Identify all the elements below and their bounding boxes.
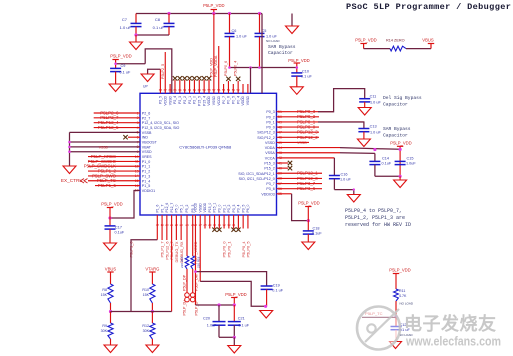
resistor R8 15K xyxy=(108,284,113,303)
svg-text:C13: C13 xyxy=(370,125,377,129)
svg-text:SAR Bypass: SAR Bypass xyxy=(383,126,411,132)
capacitor C11 xyxy=(359,98,370,100)
svg-text:P5LP_VDD: P5LP_VDD xyxy=(355,38,376,43)
svg-text:1.0uF: 1.0uF xyxy=(406,162,416,166)
svg-text:CY8C5868LTI-LP039 QFN68: CY8C5868LTI-LP039 QFN68 xyxy=(179,145,232,150)
svg-text:VSSA: VSSA xyxy=(265,151,275,155)
svg-text:P12_7: P12_7 xyxy=(170,203,174,213)
svg-text:Capacitor: Capacitor xyxy=(268,50,293,56)
wire pin44 VDDA rail to C14 C15 xyxy=(277,147,341,149)
svg-text:EX_CTRL: EX_CTRL xyxy=(61,178,82,183)
svg-text:0.1uF: 0.1uF xyxy=(382,162,392,166)
svg-text:P0_2: P0_2 xyxy=(266,115,274,119)
resistor R18 220 xyxy=(191,256,195,269)
svg-text:VBOOST: VBOOST xyxy=(142,141,158,145)
wire pin48 net label P5LP0_0 xyxy=(277,126,320,128)
capacitor C12 xyxy=(395,317,397,326)
svg-text:0.1uF: 0.1uF xyxy=(115,231,125,235)
svg-text:www.elecfans.com: www.elecfans.com xyxy=(405,334,501,349)
svg-text:P5LP0_6: P5LP0_6 xyxy=(224,61,228,76)
capacitor C7 xyxy=(135,14,137,24)
svg-text:P5LP_VDD: P5LP_VDD xyxy=(203,3,224,8)
ground below C7/C8 xyxy=(135,35,137,42)
svg-text:SIO,P12_3: SIO,P12_3 xyxy=(257,131,275,135)
svg-text:VSSD: VSSD xyxy=(246,95,250,105)
svg-text:220 R16: 220 R16 xyxy=(180,256,184,268)
capacitor C6 xyxy=(229,14,231,34)
ground below C9 xyxy=(109,84,122,92)
svg-text:VDDIO3: VDDIO3 xyxy=(261,192,274,196)
svg-text:0.1 uF: 0.1 uF xyxy=(120,71,131,75)
svg-text:P5LP12_5: P5LP12_5 xyxy=(98,125,119,130)
svg-text:P0_0: P0_0 xyxy=(266,126,274,130)
svg-text:C17: C17 xyxy=(115,226,122,230)
svg-text:P1_1: P1_1 xyxy=(142,165,150,169)
svg-text:P5LP_DP: P5LP_DP xyxy=(182,274,186,291)
resistor R9 30K xyxy=(110,312,112,324)
svg-text:P5LP0_4 to P5LP0_7,: P5LP0_4 to P5LP0_7, xyxy=(345,208,402,214)
svg-text:P15_4: P15_4 xyxy=(202,96,206,106)
svg-text:P12_5, I2C0_SDA, SIO: P12_5, I2C0_SDA, SIO xyxy=(142,126,180,130)
svg-text:1.0 uF: 1.0 uF xyxy=(120,25,132,30)
ground below C16 xyxy=(347,195,360,203)
svg-text:P5LP12_2: P5LP12_2 xyxy=(297,135,318,140)
svg-text:P2_3: P2_3 xyxy=(178,96,182,104)
svg-text:SIO,P12_2: SIO,P12_2 xyxy=(257,136,275,140)
watermark logo circle xyxy=(357,307,400,350)
svg-text:C11: C11 xyxy=(370,95,377,99)
wire pin36 net label P5LP3_6 xyxy=(277,188,323,190)
resistor R14 ZERO xyxy=(364,48,390,50)
wire C20 C21 bottoms xyxy=(219,336,234,338)
wire cap bottoms to ground xyxy=(136,34,169,36)
ground below C14/C15 xyxy=(399,176,401,180)
svg-text:C15: C15 xyxy=(407,157,414,161)
svg-text:P2_2: P2_2 xyxy=(183,96,187,104)
svg-text:C19: C19 xyxy=(273,284,280,288)
svg-text:R14 ZERO: R14 ZERO xyxy=(386,39,405,43)
capacitor C17 xyxy=(105,225,116,227)
wire C10 rail to IC top pins xyxy=(230,67,297,69)
svg-text:P2_1: P2_1 xyxy=(188,96,192,104)
wire VDDIO3 to C18 junction xyxy=(277,193,292,195)
capacitor C19 xyxy=(261,285,273,287)
wire left pins rows 10-15 with net labels xyxy=(88,156,140,158)
svg-text:P0_1: P0_1 xyxy=(266,120,274,124)
svg-text:P5LP3_6: P5LP3_6 xyxy=(297,186,316,191)
svg-text:1.0 uF: 1.0 uF xyxy=(370,131,381,135)
ground below C11 xyxy=(358,108,371,116)
node USB DM pads xyxy=(190,293,195,298)
svg-text:VCCD: VCCD xyxy=(194,202,198,212)
no-connect X marks on top pins xyxy=(173,76,177,80)
svg-text:P5LP_VDD: P5LP_VDD xyxy=(288,58,309,63)
svg-text:reserved for HW REV ID: reserved for HW REV ID xyxy=(345,222,411,228)
svg-text:P5LP_VDD: P5LP_VDD xyxy=(209,58,213,77)
svg-text:P5LP0_5: P5LP0_5 xyxy=(246,242,251,258)
svg-text:0.1uF: 0.1uF xyxy=(312,232,322,236)
svg-text:P0_7: P0_7 xyxy=(222,96,226,104)
svg-text:P5LP_VDD: P5LP_VDD xyxy=(110,54,131,59)
wire top pin stubs xyxy=(159,84,161,93)
svg-text:R11: R11 xyxy=(399,289,405,293)
svg-text:P15_3: P15_3 xyxy=(264,162,274,166)
wire C9 junction to IC top feed xyxy=(116,63,146,65)
svg-text:P3_1: P3_1 xyxy=(222,204,226,212)
wire pin49 to C13 xyxy=(277,121,364,123)
svg-text:P0_3: P0_3 xyxy=(266,110,274,114)
svg-text:P6_0: P6_0 xyxy=(246,204,250,212)
capacitor C14 xyxy=(369,160,380,162)
svg-text:VCCD: VCCD xyxy=(217,95,221,105)
no-connect X marks on bottom pins xyxy=(212,228,216,232)
svg-text:0.1 uF: 0.1 uF xyxy=(272,289,283,293)
wire pin51 to C11 xyxy=(277,111,334,113)
svg-text:P1_6: P1_6 xyxy=(156,204,160,212)
svg-text:P5LP_VDD: P5LP_VDD xyxy=(225,292,246,297)
svg-text:30K: 30K xyxy=(101,329,108,333)
svg-text:30K: 30K xyxy=(143,329,150,333)
svg-text:VSSB: VSSB xyxy=(142,131,152,135)
capacitor C5 xyxy=(259,14,261,34)
svg-text:0.1 uF: 0.1 uF xyxy=(153,25,165,30)
svg-text:1.0uF: 1.0uF xyxy=(207,324,217,328)
svg-text:P3_3: P3_3 xyxy=(232,204,236,212)
svg-text:VSSD: VSSD xyxy=(99,145,109,149)
svg-text:C20: C20 xyxy=(203,317,210,321)
svg-text:P5_0: P5_0 xyxy=(175,204,179,212)
svg-text:15K: 15K xyxy=(143,293,150,297)
wire bottom pin stubs xyxy=(156,215,158,240)
wire pin50 with net label P5LP0_2 xyxy=(277,116,320,118)
svg-text:P1_4: P1_4 xyxy=(142,179,150,183)
svg-text:P1_7: P1_7 xyxy=(160,204,164,212)
svg-text:15K: 15K xyxy=(101,293,108,297)
junction VBUS divider xyxy=(109,310,112,313)
svg-text:SIO, I2C1_SDA/P12_1: SIO, I2C1_SDA/P12_1 xyxy=(238,172,275,176)
ground below C10 xyxy=(290,87,303,95)
svg-text:VDDD: VDDD xyxy=(207,95,211,105)
svg-text:VDDD: VDDD xyxy=(203,202,207,212)
capacitor C18 xyxy=(303,230,314,232)
ground below C18 xyxy=(302,242,315,250)
svg-text:C9: C9 xyxy=(121,64,126,68)
svg-text:VTARG: VTARG xyxy=(145,267,159,272)
svg-text:P3_7: P3_7 xyxy=(266,182,274,186)
wire sense to bottom pin 18 xyxy=(131,240,157,312)
svg-text:C7: C7 xyxy=(122,17,128,22)
wire USB DP line xyxy=(186,269,188,293)
svg-text:P5_1: P5_1 xyxy=(179,204,183,212)
capacitor C9 xyxy=(110,67,121,69)
svg-text:P3_2: P3_2 xyxy=(227,204,231,212)
node USB DP pads xyxy=(185,293,190,298)
wire pin46 net label P5LP12_2 xyxy=(277,136,320,138)
capacitor C20 xyxy=(218,305,220,321)
svg-text:UP: UP xyxy=(143,85,148,89)
svg-text:P5LP_VDD: P5LP_VDD xyxy=(298,201,319,206)
svg-text:VDDIO1: VDDIO1 xyxy=(142,189,155,193)
svg-text:IND: IND xyxy=(142,136,149,140)
wire VDDIO1 to C17 junction xyxy=(110,190,140,218)
wire row16 P1_5 xyxy=(95,185,140,187)
svg-text:C14: C14 xyxy=(382,157,389,161)
capacitor C16 xyxy=(329,175,340,177)
svg-text:4.7K: 4.7K xyxy=(399,294,407,298)
svg-text:P5LP1_5: P5LP1_5 xyxy=(98,183,117,188)
svg-text:C8: C8 xyxy=(155,17,161,22)
svg-text:P5_2: P5_2 xyxy=(185,204,189,212)
svg-text:P15_0: P15_0 xyxy=(208,203,212,213)
svg-text:VCCD: VCCD xyxy=(163,95,167,105)
svg-text:P1_3: P1_3 xyxy=(142,174,150,178)
svg-text:C10: C10 xyxy=(302,70,309,74)
svg-text:P5LP0_1: P5LP0_1 xyxy=(226,242,231,258)
svg-text:VSSD: VSSD xyxy=(142,150,152,154)
svg-text:VSSD: VSSD xyxy=(168,95,172,105)
svg-text:P3_0: P3_0 xyxy=(218,204,222,212)
svg-text:P3_4: P3_4 xyxy=(237,204,241,212)
wire left pins rows 1-4 xyxy=(94,112,140,114)
ground below C12 xyxy=(390,342,402,349)
resistor R11 4.7K xyxy=(394,289,399,301)
svg-text:1.0 uF: 1.0 uF xyxy=(236,35,247,39)
ground below R12 xyxy=(146,345,159,353)
svg-text:P3_5: P3_5 xyxy=(241,204,245,212)
svg-text:VBUS: VBUS xyxy=(422,38,434,43)
svg-text:1.0 uF: 1.0 uF xyxy=(266,35,277,39)
svg-text:Capacitor: Capacitor xyxy=(383,133,408,139)
svg-text:P5LP_D+: P5LP_D+ xyxy=(182,300,186,316)
wire C14 C15 bottoms xyxy=(375,175,400,177)
junction VTARG divider xyxy=(151,310,154,313)
svg-text:P5LP_VDD: P5LP_VDD xyxy=(389,268,410,273)
svg-text:P5LP_VDD: P5LP_VDD xyxy=(390,141,411,146)
capacitor C15 xyxy=(395,160,406,162)
ground below C21 xyxy=(233,337,235,345)
svg-text:P0_5: P0_5 xyxy=(232,96,236,104)
resistor R12 30K xyxy=(151,312,153,324)
svg-text:C16: C16 xyxy=(341,173,348,177)
wire C19 ground loop from pin VSSD xyxy=(200,281,265,306)
svg-text:P12_4, I2C0_SCL, SIO: P12_4, I2C0_SCL, SIO xyxy=(142,121,179,125)
svg-text:0.1 uF: 0.1 uF xyxy=(301,75,312,79)
ground below C17 xyxy=(104,243,117,251)
svg-text:P5LP_DM: P5LP_DM xyxy=(195,274,199,291)
svg-text:SAR Bypass: SAR Bypass xyxy=(268,44,296,50)
svg-text:SIO, I2C1_SCL/P12_0: SIO, I2C1_SCL/P12_0 xyxy=(239,177,275,181)
svg-text:P1_2: P1_2 xyxy=(142,170,150,174)
capacitor C8 xyxy=(168,14,170,24)
svg-text:P1_0: P1_0 xyxy=(142,160,150,164)
svg-text:P5LP2_5: P5LP2_5 xyxy=(161,64,165,79)
svg-text:P12_6: P12_6 xyxy=(165,203,169,213)
resistor R10 15K xyxy=(150,284,155,303)
svg-text:Del Sig Bypass: Del Sig Bypass xyxy=(383,95,422,101)
wire divider sense net xyxy=(111,311,172,313)
svg-text:P2_7: P2_7 xyxy=(142,116,150,120)
svg-text:VDDD: VDDD xyxy=(241,95,245,105)
svg-text:R9: R9 xyxy=(102,324,107,328)
svg-text:P0_4: P0_4 xyxy=(236,96,240,104)
junction R11 node xyxy=(394,315,397,318)
wire VDD rail to C20 C21 xyxy=(195,304,234,306)
wire pin43 VSSA xyxy=(277,152,341,154)
svg-text:VBUS: VBUS xyxy=(105,267,117,272)
wire top VDD rail xyxy=(136,13,262,15)
wire ground bus rows 5-9 xyxy=(70,131,141,133)
svg-text:P15_1: P15_1 xyxy=(213,203,217,213)
svg-text:NO LOAD: NO LOAD xyxy=(400,302,414,306)
svg-text:P1_5: P1_5 xyxy=(142,184,150,188)
svg-text:P5LP_D-: P5LP_D- xyxy=(195,300,199,316)
ground below C19 xyxy=(260,311,273,319)
wire USB DM line xyxy=(192,269,194,293)
svg-text:PSoC 5LP Programmer / Debugger: PSoC 5LP Programmer / Debugger xyxy=(346,2,511,12)
svg-text:P2_6: P2_6 xyxy=(142,112,150,116)
svg-text:P2_0: P2_0 xyxy=(193,96,197,104)
svg-text:220 R18: 220 R18 xyxy=(197,256,201,268)
capacitor C21 xyxy=(233,305,235,321)
svg-text:R12: R12 xyxy=(142,324,149,328)
op-amp U1 microcontroller CY8C5868LTI-LP039 QFN68 body xyxy=(140,93,277,215)
svg-text:P0_6: P0_6 xyxy=(227,96,231,104)
svg-text:VDDA: VDDA xyxy=(265,146,276,150)
ground top left of IC xyxy=(148,69,161,74)
ground below C13 xyxy=(357,139,370,147)
svg-text:VCCA: VCCA xyxy=(265,156,276,160)
svg-text:XRES: XRES xyxy=(142,155,152,159)
svg-text:C21: C21 xyxy=(238,317,245,321)
svg-text:C6: C6 xyxy=(232,29,237,33)
svg-text:P3_6: P3_6 xyxy=(266,187,274,191)
ground below R9 xyxy=(104,345,117,353)
svg-text:NO LOAD: NO LOAD xyxy=(266,39,280,43)
wire pin42 VCCA to C16 xyxy=(277,157,335,159)
svg-text:VBAT: VBAT xyxy=(142,145,152,149)
svg-text:1.0 uF: 1.0 uF xyxy=(340,178,351,182)
junction dots on top rail xyxy=(167,12,170,15)
svg-text:P15_2: P15_2 xyxy=(264,167,274,171)
svg-text:P5LP_VDDA: P5LP_VDDA xyxy=(214,55,218,77)
svg-text:VSSD: VSSD xyxy=(198,203,202,213)
wire pin45 VSSD xyxy=(277,141,310,143)
svg-text:电子发烧友: 电子发烧友 xyxy=(404,313,497,334)
wire top rail drop to IC xyxy=(261,14,263,94)
svg-text:P5LP1_2, P5LP1_3 are: P5LP1_2, P5LP1_3 are xyxy=(345,215,405,221)
wire pin39 net label P5LP12_1 xyxy=(277,172,323,174)
svg-text:0.1 uF: 0.1 uF xyxy=(238,324,249,328)
svg-text:1.0 uF: 1.0 uF xyxy=(370,101,381,105)
svg-text:P15_5: P15_5 xyxy=(197,96,201,106)
svg-text:C18: C18 xyxy=(313,227,320,231)
capacitor C10 xyxy=(291,72,302,74)
svg-text:P2_5: P2_5 xyxy=(159,96,163,104)
ground left bus xyxy=(69,164,71,166)
wire pin37 net label P5LP3_7 xyxy=(277,183,323,185)
svg-text:R8: R8 xyxy=(102,288,107,292)
wire pin47 net label P5LP12_3 xyxy=(277,131,320,133)
svg-text:R10: R10 xyxy=(142,288,149,292)
wire pin38 net label P5LP12_0 xyxy=(277,177,323,179)
no-connect X on IND pin xyxy=(123,135,127,139)
svg-text:P5LP0_4: P5LP0_4 xyxy=(234,61,238,76)
svg-text:VSSD: VSSD xyxy=(265,141,275,145)
wire bottom pin VCCD to C19 xyxy=(195,272,266,286)
svg-text:P2_4: P2_4 xyxy=(173,96,177,104)
wire C16 to ground xyxy=(334,190,353,195)
no-connect X pins 41 40 xyxy=(277,162,289,164)
ground on top rail xyxy=(291,14,293,27)
svg-text:P5LP_VDD: P5LP_VDD xyxy=(101,202,122,207)
svg-text:Capacitor: Capacitor xyxy=(383,102,408,108)
resistor R16 220 xyxy=(185,256,189,269)
svg-text:VSSD: VSSD xyxy=(297,141,307,145)
svg-text:VSSD: VSSD xyxy=(212,95,216,105)
capacitor C13 xyxy=(358,128,369,130)
